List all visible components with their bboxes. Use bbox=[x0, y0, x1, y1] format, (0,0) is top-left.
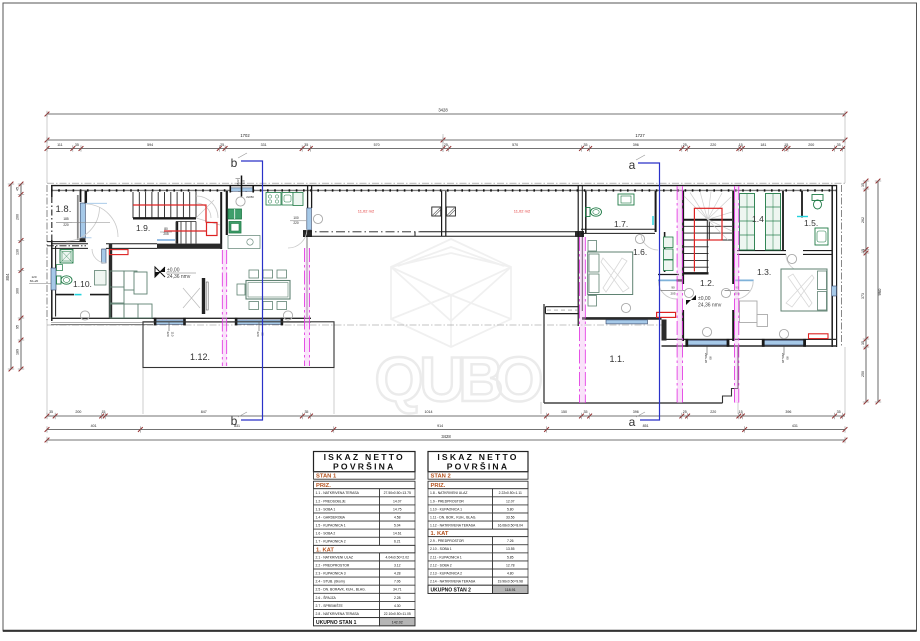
desk 1.3 bbox=[740, 301, 758, 323]
kitchen tall cabinet bbox=[228, 209, 242, 219]
section line b bbox=[241, 161, 263, 420]
kitchen wall bbox=[226, 191, 228, 235]
bed 1.6 bbox=[588, 252, 633, 295]
cyan mark 1.7 bbox=[652, 216, 654, 225]
dining chairs bbox=[249, 270, 259, 278]
svg-text:804: 804 bbox=[5, 273, 10, 281]
svg-text:331: 331 bbox=[261, 143, 267, 147]
svg-text:15: 15 bbox=[784, 143, 788, 147]
svg-text:100: 100 bbox=[293, 216, 299, 220]
svg-text:2.13 - KUPAONICA 2: 2.13 - KUPAONICA 2 bbox=[430, 572, 462, 576]
dimension line left segments bbox=[20, 184, 22, 369]
bathroom door 1.10 bbox=[102, 249, 106, 263]
sink 1.5 bbox=[815, 228, 828, 245]
svg-text:6.21: 6.21 bbox=[394, 540, 401, 544]
svg-text:15: 15 bbox=[101, 410, 105, 414]
table STAN 1 bbox=[0, 0, 1, 1]
svg-text:PRIZ.: PRIZ. bbox=[431, 483, 446, 489]
svg-text:15: 15 bbox=[739, 143, 743, 147]
terrace 1.1 left wall bbox=[543, 304, 545, 403]
svg-text:7.26: 7.26 bbox=[507, 539, 514, 543]
svg-text:80: 80 bbox=[164, 227, 168, 231]
svg-text:35: 35 bbox=[837, 143, 841, 147]
toilet 1.10 bbox=[57, 276, 62, 284]
svg-text:90: 90 bbox=[786, 356, 790, 360]
svg-text:a: a bbox=[629, 415, 636, 429]
tv cabinet 1.11 bbox=[202, 278, 205, 314]
svg-text:35: 35 bbox=[49, 410, 53, 414]
svg-text:±0,00: ±0,00 bbox=[698, 296, 711, 302]
svg-text:14.07: 14.07 bbox=[393, 499, 402, 503]
roof overhang line top bbox=[47, 182, 845, 184]
watermark cube logo bbox=[391, 239, 511, 347]
svg-text:15: 15 bbox=[861, 249, 865, 253]
svg-text:185: 185 bbox=[63, 217, 69, 221]
svg-text:1.8 - NATKRIVENI ULAZ: 1.8 - NATKRIVENI ULAZ bbox=[430, 491, 467, 495]
svg-text:35: 35 bbox=[304, 143, 308, 147]
roof overhang line right bbox=[841, 185, 843, 347]
svg-text:1.12 - NATKRIVENA TERASA: 1.12 - NATKRIVENA TERASA bbox=[430, 524, 476, 528]
svg-text:90: 90 bbox=[671, 286, 675, 290]
svg-text:150: 150 bbox=[561, 410, 567, 414]
svg-text:O: O bbox=[494, 345, 543, 415]
closet shelves bbox=[664, 237, 674, 248]
dimension line right segments bbox=[865, 181, 867, 402]
svg-text:45: 45 bbox=[16, 187, 20, 191]
svg-text:914: 914 bbox=[437, 424, 443, 428]
svg-text:24,36 nmv: 24,36 nmv bbox=[698, 303, 722, 309]
svg-text:1.5 - KUPAONICA 1: 1.5 - KUPAONICA 1 bbox=[316, 524, 346, 528]
stairs 1.2 treads lower bbox=[684, 247, 709, 267]
bottom wall right unit east part bbox=[662, 338, 838, 340]
door swing 1.8 bbox=[85, 204, 118, 237]
svg-text:1702: 1702 bbox=[240, 133, 250, 138]
svg-text:1.12.: 1.12. bbox=[190, 352, 210, 362]
small shelf 1.10 bbox=[57, 265, 63, 271]
staircase 1.9 lower flight bbox=[176, 222, 196, 244]
svg-text:1.6.: 1.6. bbox=[633, 247, 647, 257]
red accent beam 1.6 bbox=[657, 312, 676, 317]
svg-text:25: 25 bbox=[683, 143, 687, 147]
magenta section line A bbox=[222, 250, 226, 366]
svg-text:35: 35 bbox=[584, 410, 588, 414]
svg-text:431: 431 bbox=[792, 424, 798, 428]
window bottom 1.11 a bbox=[155, 320, 185, 325]
wall right of 1.7 bbox=[655, 191, 657, 232]
cyan mark 1.5 bbox=[797, 216, 808, 218]
svg-text:2.11 - KUPAONICA 1: 2.11 - KUPAONICA 1 bbox=[430, 555, 462, 559]
stair door 80/205 bbox=[157, 239, 175, 241]
svg-text:1. KAT: 1. KAT bbox=[431, 531, 449, 537]
svg-text:4.04x0.50=2.02: 4.04x0.50=2.02 bbox=[386, 555, 410, 559]
svg-text:851: 851 bbox=[643, 424, 649, 428]
bottom wall left unit bbox=[51, 317, 311, 319]
svg-text:396: 396 bbox=[785, 410, 791, 414]
partition in 1.10 bbox=[56, 294, 74, 296]
svg-text:250: 250 bbox=[861, 371, 865, 377]
left outer wall bbox=[51, 185, 53, 197]
dimension line right total 960 bbox=[877, 181, 879, 402]
svg-text:95: 95 bbox=[16, 325, 20, 329]
wardrobes 1.4 bbox=[740, 194, 755, 251]
cyan mark 1.10 bbox=[75, 294, 82, 296]
dimension line top 1702/1727 bbox=[47, 139, 845, 141]
svg-text:8,8: 8,8 bbox=[242, 180, 246, 185]
sofa 1.11 bbox=[110, 271, 152, 318]
svg-text:UKUPNO STAN 2: UKUPNO STAN 2 bbox=[431, 587, 472, 593]
svg-text:960: 960 bbox=[877, 288, 882, 296]
svg-text:1.4 - GARDEROBA: 1.4 - GARDEROBA bbox=[316, 515, 346, 519]
svg-text:1.4: 1.4 bbox=[752, 214, 764, 224]
svg-text:3428: 3428 bbox=[438, 108, 448, 113]
svg-text:1. KAT: 1. KAT bbox=[316, 547, 334, 553]
top wall inner bbox=[51, 189, 837, 191]
table STAN 2 bbox=[0, 0, 1, 1]
left unit right wall corner bbox=[303, 230, 312, 237]
svg-text:2x050: 2x050 bbox=[246, 195, 254, 199]
svg-text:1.6 - SOBA 2: 1.6 - SOBA 2 bbox=[316, 532, 336, 536]
svg-text:220+20: 220+20 bbox=[704, 353, 708, 363]
svg-text:25: 25 bbox=[444, 143, 448, 147]
svg-text:2.1 - NATKRIVENI ULAZ: 2.1 - NATKRIVENI ULAZ bbox=[316, 555, 353, 559]
partition 1.5 bbox=[801, 191, 803, 218]
window bottom 1.2 bbox=[687, 340, 728, 345]
svg-text:1.1 - NATKRIVENA TERASA: 1.1 - NATKRIVENA TERASA bbox=[316, 491, 360, 495]
svg-text:POVRŠINA: POVRŠINA bbox=[447, 460, 510, 471]
stairwell bottom wall bbox=[157, 244, 222, 249]
wall above 1.10 bbox=[51, 243, 88, 245]
svg-text:1.5.: 1.5. bbox=[804, 218, 818, 228]
wall light circles bbox=[80, 311, 89, 320]
svg-text:16.08x0.50=8.04: 16.08x0.50=8.04 bbox=[498, 524, 523, 528]
svg-text:300: 300 bbox=[16, 288, 20, 294]
door header lines 1.8 bbox=[86, 202, 108, 204]
svg-text:1014: 1014 bbox=[425, 410, 433, 414]
svg-text:200: 200 bbox=[75, 410, 81, 414]
svg-text:1.2.: 1.2. bbox=[700, 278, 714, 288]
svg-text:847: 847 bbox=[201, 410, 207, 414]
section line a bbox=[638, 163, 660, 420]
svg-text:15: 15 bbox=[739, 410, 743, 414]
svg-text:13.55: 13.55 bbox=[506, 547, 515, 551]
svg-text:24,36 nmv: 24,36 nmv bbox=[167, 274, 191, 280]
svg-text:220: 220 bbox=[293, 221, 299, 225]
stairwell 1.2 left wall bbox=[682, 191, 684, 284]
svg-text:19.96x0.50=9.98: 19.96x0.50=9.98 bbox=[498, 580, 523, 584]
svg-text:PRIZ.: PRIZ. bbox=[316, 483, 331, 489]
stairs 1.2 treads upper bbox=[684, 226, 732, 233]
dimension line bottom total 3428 bbox=[47, 439, 845, 441]
stairwell 1.2 right wall bbox=[732, 191, 734, 284]
svg-text:2.10 - SOBA 1: 2.10 - SOBA 1 bbox=[430, 547, 452, 551]
svg-text:220+20: 220+20 bbox=[781, 353, 785, 363]
level mark 1.11 bbox=[155, 267, 165, 277]
svg-text:2.22x0.50=1.11: 2.22x0.50=1.11 bbox=[499, 491, 522, 495]
svg-text:401: 401 bbox=[91, 424, 97, 428]
terrace 1.12 bbox=[143, 322, 334, 368]
wall below 1.7 bbox=[581, 228, 655, 230]
svg-text:2.9 - PREDPROSTOR: 2.9 - PREDPROSTOR bbox=[430, 539, 464, 543]
window bottom 1.3 bbox=[763, 340, 804, 345]
corridor bottom wall bbox=[303, 231, 420, 233]
svg-text:111: 111 bbox=[57, 143, 62, 147]
fridge top wall bbox=[293, 193, 303, 206]
svg-text:570: 570 bbox=[512, 143, 518, 147]
column hatched right bbox=[446, 207, 455, 216]
svg-text:1.9 - PREDPROSTOR: 1.9 - PREDPROSTOR bbox=[430, 499, 464, 503]
extension lines top bbox=[46, 114, 48, 183]
window annotation right unit bbox=[706, 347, 708, 356]
svg-text:4.80: 4.80 bbox=[507, 572, 514, 576]
svg-text:2.8 - NATKRIVENA TERASA: 2.8 - NATKRIVENA TERASA bbox=[316, 612, 360, 616]
svg-text:27.50x0.50=13.75: 27.50x0.50=13.75 bbox=[384, 491, 411, 495]
left unit right wall upper bbox=[307, 185, 309, 208]
bottom wall right unit west part bbox=[582, 317, 662, 320]
svg-text:2.3 - KUPAONICA 3: 2.3 - KUPAONICA 3 bbox=[316, 572, 346, 576]
right outer wall bbox=[831, 185, 833, 347]
svg-text:2.7 - SPREMIŠTE: 2.7 - SPREMIŠTE bbox=[316, 603, 344, 608]
magenta section line E bbox=[580, 237, 586, 403]
terrace 1.1 bottom bbox=[544, 402, 723, 404]
dimension line top segments bbox=[47, 148, 845, 150]
svg-text:25: 25 bbox=[220, 143, 224, 147]
kitchen counter low bbox=[228, 236, 260, 249]
window 1.6 bottom bbox=[606, 320, 648, 324]
svg-text:4.28: 4.28 bbox=[394, 572, 401, 576]
svg-text:POVRŠINA: POVRŠINA bbox=[333, 460, 396, 471]
magenta section line B bbox=[304, 248, 309, 366]
dimension line left total 804 bbox=[10, 184, 12, 369]
terrace 1.1 steps bbox=[723, 389, 739, 404]
room 1.8 walls bbox=[47, 241, 86, 243]
svg-text:35: 35 bbox=[861, 183, 865, 187]
svg-text:1.8.: 1.8. bbox=[56, 204, 72, 215]
svg-text:35: 35 bbox=[861, 341, 865, 345]
svg-text:1.2 - PREDSOBLJE: 1.2 - PREDSOBLJE bbox=[316, 499, 347, 503]
corridor divider wall bbox=[441, 191, 443, 236]
svg-text:1727: 1727 bbox=[635, 133, 645, 138]
svg-text:262: 262 bbox=[861, 217, 865, 223]
glass wall under section line bbox=[306, 237, 308, 317]
terrace 1.1 beam bbox=[545, 306, 578, 308]
svg-text:118.91: 118.91 bbox=[505, 588, 516, 592]
svg-text:220: 220 bbox=[710, 143, 716, 147]
svg-text:4.58: 4.58 bbox=[394, 515, 401, 519]
magenta section line C bbox=[677, 186, 682, 403]
svg-text:200: 200 bbox=[16, 214, 20, 220]
svg-text:5.80: 5.80 bbox=[507, 507, 514, 511]
room 1.7 left wall bbox=[585, 191, 587, 233]
svg-text:2.4 - STUB. (6kom): 2.4 - STUB. (6kom) bbox=[316, 580, 345, 584]
washing machine bbox=[60, 250, 73, 264]
svg-text:2.28: 2.28 bbox=[394, 596, 401, 600]
stair door leaf west bbox=[658, 279, 677, 281]
red accent beam 1.11 bbox=[110, 250, 129, 255]
svg-text:4.30: 4.30 bbox=[394, 604, 401, 608]
svg-text:7.06: 7.06 bbox=[394, 580, 401, 584]
top wall outer bbox=[51, 185, 837, 187]
svg-text:594: 594 bbox=[147, 143, 153, 147]
stairs 1.2 fan lines bbox=[684, 192, 732, 241]
svg-text:a: a bbox=[629, 158, 636, 172]
roof overhang line left bbox=[46, 185, 48, 321]
svg-text:205: 205 bbox=[670, 292, 675, 296]
column hatched left bbox=[432, 207, 441, 216]
svg-text:b: b bbox=[231, 156, 238, 170]
svg-text:STAN 2: STAN 2 bbox=[431, 474, 451, 480]
red handrail stairs 1.9 bbox=[133, 205, 217, 236]
svg-text:35: 35 bbox=[304, 410, 308, 414]
svg-text:11,02 m2: 11,02 m2 bbox=[514, 209, 531, 214]
window top wall left unit bbox=[230, 188, 254, 191]
svg-text:110: 110 bbox=[171, 332, 175, 337]
glass door left unit east bbox=[307, 208, 312, 230]
dining table 1.11 bbox=[246, 281, 290, 300]
svg-text:34.71: 34.71 bbox=[393, 588, 402, 592]
closet wall bbox=[664, 232, 666, 272]
level mark 1.2 bbox=[691, 295, 696, 300]
svg-text:12.78: 12.78 bbox=[506, 563, 515, 567]
stair swing arcs bbox=[196, 196, 218, 218]
sink on top wall bbox=[282, 193, 293, 206]
svg-text:2.5 - DN. BORAVK, KUH., BLAG.: 2.5 - DN. BORAVK, KUH., BLAG. bbox=[316, 588, 366, 592]
svg-text:±0,00: ±0,00 bbox=[167, 268, 180, 274]
svg-text:2.2 - PREDPROSTOR: 2.2 - PREDPROSTOR bbox=[316, 563, 350, 567]
svg-text:2.12 - SOBA 2: 2.12 - SOBA 2 bbox=[430, 563, 452, 567]
svg-text:11,02 m2: 11,02 m2 bbox=[358, 209, 375, 214]
svg-text:189: 189 bbox=[16, 349, 20, 355]
svg-text:35: 35 bbox=[584, 143, 588, 147]
shower 1.10 bbox=[95, 271, 107, 286]
dimension line top total 3428 bbox=[47, 113, 845, 115]
svg-text:22.10x0.50=11.05: 22.10x0.50=11.05 bbox=[384, 612, 411, 616]
svg-text:220: 220 bbox=[166, 331, 170, 336]
svg-text:60+20: 60+20 bbox=[30, 279, 39, 283]
wall right of 1.10 bbox=[109, 244, 112, 318]
svg-text:B,R: B,R bbox=[236, 179, 240, 185]
svg-text:1.1.: 1.1. bbox=[609, 354, 624, 364]
svg-text:220: 220 bbox=[256, 331, 260, 336]
window right wall bbox=[832, 286, 837, 296]
svg-text:b: b bbox=[231, 414, 238, 428]
door glass right wall w arc bbox=[288, 230, 307, 249]
svg-text:1.9.: 1.9. bbox=[136, 223, 150, 233]
stairwell right wall bbox=[220, 192, 222, 249]
svg-text:STAN 1: STAN 1 bbox=[316, 474, 337, 480]
svg-text:12.07: 12.07 bbox=[506, 499, 515, 503]
wall 1.4/1.5 bbox=[782, 191, 784, 250]
svg-text:3.12: 3.12 bbox=[394, 563, 401, 567]
desk 1.7 bbox=[618, 194, 634, 205]
svg-text:1.7.: 1.7. bbox=[614, 219, 628, 229]
svg-text:181: 181 bbox=[760, 143, 766, 147]
window annotation marks terrace bbox=[168, 322, 170, 331]
dimension line bottom segments bbox=[47, 415, 845, 417]
staircase 1.9 treads upper flight bbox=[133, 192, 196, 218]
chair 1.3 bbox=[757, 315, 768, 327]
svg-text:3428: 3428 bbox=[441, 434, 451, 439]
wall connector right unit bbox=[662, 320, 667, 341]
svg-text:1.10 - KUPAONICA 1: 1.10 - KUPAONICA 1 bbox=[430, 507, 462, 511]
window bottom 1.11 b bbox=[236, 320, 282, 325]
svg-text:1.3 - SOBA 1: 1.3 - SOBA 1 bbox=[316, 507, 336, 511]
svg-text:570: 570 bbox=[374, 143, 380, 147]
svg-text:1.10.: 1.10. bbox=[73, 279, 92, 289]
nightstands 1.6 bbox=[588, 241, 597, 252]
wall below 1.4/1.5 bbox=[737, 250, 786, 252]
svg-text:200: 200 bbox=[808, 143, 814, 147]
svg-text:14.61: 14.61 bbox=[393, 532, 402, 536]
stove on top wall bbox=[266, 193, 281, 206]
red accent beam 1.3 bbox=[809, 334, 829, 339]
right unit left wall bbox=[577, 185, 579, 326]
toilet 1.5 bbox=[812, 195, 823, 201]
svg-text:1.7 - KUPAONICA 2: 1.7 - KUPAONICA 2 bbox=[316, 540, 346, 544]
svg-text:396: 396 bbox=[633, 410, 639, 414]
svg-text:130: 130 bbox=[16, 249, 20, 255]
red handrail stairs 1.2 bbox=[694, 208, 722, 271]
svg-text:205: 205 bbox=[163, 232, 169, 236]
svg-text:5.04: 5.04 bbox=[394, 524, 401, 528]
svg-text:14.75: 14.75 bbox=[393, 507, 402, 511]
svg-text:5.85: 5.85 bbox=[507, 555, 514, 559]
svg-text:396: 396 bbox=[633, 143, 639, 147]
stair door leaf east bbox=[735, 279, 753, 281]
toilet 1.7 bbox=[586, 208, 591, 217]
svg-text:2.6 - ŠPAJZA: 2.6 - ŠPAJZA bbox=[316, 595, 337, 600]
1.8 gray wall line bbox=[77, 195, 79, 240]
entry door blue 1.8 bbox=[80, 203, 85, 238]
door 1.7 bbox=[641, 234, 658, 251]
roof overhang line bottom bbox=[47, 324, 662, 326]
svg-text:25: 25 bbox=[683, 410, 687, 414]
svg-text:33.56: 33.56 bbox=[506, 515, 515, 519]
svg-text:2.14 - NATKRIVENA TERASA: 2.14 - NATKRIVENA TERASA bbox=[430, 580, 476, 584]
svg-text:220: 220 bbox=[63, 223, 69, 227]
svg-text:UKUPNO STAN 1: UKUPNO STAN 1 bbox=[316, 620, 357, 626]
svg-text:220: 220 bbox=[710, 410, 716, 414]
svg-text:142.02: 142.02 bbox=[392, 620, 403, 624]
svg-text:1.11 - DN. BOR., KUH., BLAG.: 1.11 - DN. BOR., KUH., BLAG. bbox=[430, 515, 476, 519]
svg-text:90: 90 bbox=[709, 356, 713, 360]
window left wall 1.10 bbox=[51, 268, 56, 290]
magenta section line D bbox=[734, 186, 738, 403]
coffee table 1.11 bbox=[134, 272, 147, 294]
bed 1.3 bbox=[781, 269, 827, 311]
dimension line bottom mid bbox=[47, 429, 845, 431]
svg-text:35: 35 bbox=[75, 143, 79, 147]
svg-text:35: 35 bbox=[837, 410, 841, 414]
svg-text:1.3.: 1.3. bbox=[757, 267, 771, 277]
extension lines bottom bbox=[142, 368, 144, 414]
svg-text:Q: Q bbox=[374, 345, 423, 415]
svg-text:373: 373 bbox=[861, 293, 865, 299]
